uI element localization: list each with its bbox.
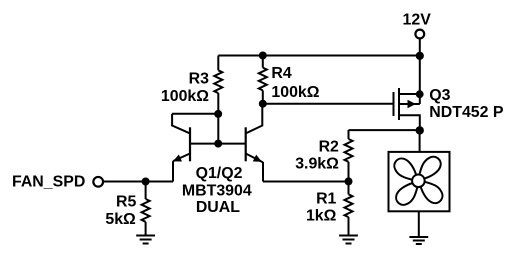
svg-text:MBT3904: MBT3904 [182,182,252,199]
svg-text:R1: R1 [316,191,336,208]
svg-text:DUAL: DUAL [196,199,240,216]
svg-text:100kΩ: 100kΩ [161,88,209,105]
svg-text:R3: R3 [189,70,209,87]
svg-text:R5: R5 [116,193,136,210]
svg-text:R4: R4 [271,65,291,82]
svg-text:NDT452 P: NDT452 P [429,104,504,121]
svg-text:FAN_SPD: FAN_SPD [12,173,85,190]
svg-text:R2: R2 [319,139,339,156]
svg-text:1kΩ: 1kΩ [306,208,337,225]
svg-text:100kΩ: 100kΩ [271,84,319,101]
svg-text:5kΩ: 5kΩ [105,211,136,228]
svg-text:Q3: Q3 [429,87,450,104]
svg-text:Q1/Q2: Q1/Q2 [196,165,243,182]
svg-text:3.9kΩ: 3.9kΩ [295,155,339,172]
svg-text:12V: 12V [403,11,432,28]
